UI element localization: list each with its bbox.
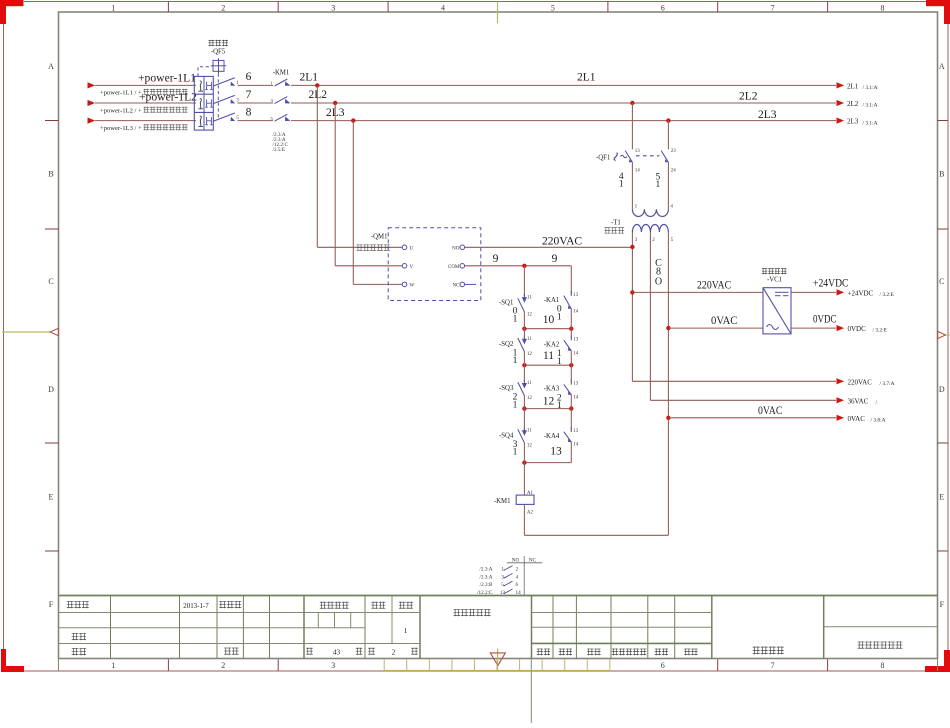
svg-text:B: B — [48, 170, 53, 179]
svg-text:1: 1 — [619, 180, 624, 190]
junction node rung3 left — [522, 406, 526, 410]
svg-text:3: 3 — [635, 238, 638, 243]
svg-text:14: 14 — [573, 443, 579, 448]
svg-text:2L1: 2L1 — [300, 71, 319, 83]
limit switch SQ3 — [518, 380, 533, 402]
transformer T1 secondary winding — [632, 225, 673, 244]
svg-text:4: 4 — [516, 574, 519, 580]
junction node rung4 left — [522, 460, 526, 464]
QF5 pole 3 contact — [213, 113, 239, 121]
svg-text:A2: A2 — [527, 511, 534, 516]
KM1 contact mirror table — [477, 556, 542, 596]
QF5 pole 3 thermal element — [198, 116, 203, 126]
svg-text:E: E — [49, 493, 54, 502]
svg-text:1: 1 — [271, 81, 274, 86]
wire T1 pin5 down — [667, 232, 669, 535]
svg-text:6: 6 — [516, 582, 519, 588]
svg-text:A: A — [48, 62, 54, 71]
zone tick marks left and right — [45, 121, 948, 552]
limit switch SQ2 — [518, 335, 533, 357]
svg-text:/2.3:B: /2.3:B — [480, 582, 493, 588]
wire KM1 A2 return — [524, 504, 668, 535]
QM1 input terminal V — [402, 264, 413, 271]
rung wire net 13 — [524, 462, 571, 464]
wire phase L3 — [95, 120, 836, 122]
centering mark right — [938, 331, 950, 338]
svg-text:/2.3:A: /2.3:A — [479, 574, 492, 580]
svg-text:14: 14 — [573, 395, 579, 400]
svg-text:2013-1-7: 2013-1-7 — [183, 602, 209, 610]
phase monitor QM1 label — [357, 234, 390, 251]
dc power supply VC1 — [763, 288, 791, 334]
limit switch SQ1 — [518, 294, 533, 318]
svg-text:/2.5:E: /2.5:E — [273, 147, 286, 153]
bottom band zone dividers — [59, 659, 938, 672]
svg-text:B: B — [939, 170, 944, 179]
destination arrow 2L3 — [837, 118, 878, 127]
svg-text:D: D — [48, 385, 54, 394]
label +power-1L2 sub — [100, 107, 188, 115]
svg-text:6: 6 — [246, 71, 252, 83]
wire 2L3 drop to QM1 W — [353, 121, 402, 285]
svg-text:2L1: 2L1 — [577, 71, 596, 83]
wire QF1 24 to T1 pin4 — [667, 162, 669, 209]
circuit breaker QF5 operator — [198, 58, 226, 118]
wire phase L2 — [95, 102, 836, 104]
QF5 pole 2 contact — [213, 95, 239, 103]
svg-text:5: 5 — [271, 116, 274, 121]
QM1 input terminal W — [402, 282, 414, 289]
svg-text:W: W — [410, 284, 415, 289]
source arrow L1 — [88, 82, 96, 88]
rung wire net 11 — [524, 364, 571, 366]
svg-text:/12.2:C: /12.2:C — [477, 590, 493, 596]
svg-text:-SQ4: -SQ4 — [499, 433, 514, 440]
svg-text:13: 13 — [573, 382, 579, 387]
junction node 2L2 tap — [333, 101, 337, 105]
wire 2L1 drop to QM1 U — [317, 85, 402, 247]
wire T1 pin3 down — [632, 232, 836, 381]
svg-text:-KM1: -KM1 — [494, 498, 511, 505]
junction node 2L1 tap — [315, 83, 319, 87]
QF5 pole 2 thermal element — [198, 98, 203, 108]
KM1 main contact pole 1 — [271, 79, 291, 86]
junction node 220VAC VC1 — [630, 290, 634, 294]
svg-text:2L2: 2L2 — [847, 100, 859, 108]
svg-text:-KA2: -KA2 — [544, 341, 560, 348]
QF5 pole 1 magnetic element — [205, 82, 213, 90]
QF1 contact 23-24 — [661, 149, 676, 173]
svg-text:3: 3 — [271, 98, 274, 103]
svg-text:2L2: 2L2 — [739, 90, 758, 102]
phase monitor QM1 box — [388, 228, 481, 301]
title block labels left — [67, 601, 242, 655]
svg-text:0VAC: 0VAC — [848, 415, 866, 423]
svg-text:12: 12 — [527, 312, 533, 317]
wire 220VAC to VC1 — [632, 291, 763, 293]
svg-text:1: 1 — [404, 627, 408, 635]
svg-text:2L2: 2L2 — [309, 89, 328, 101]
revision table headers — [537, 649, 698, 656]
source arrow L2 — [88, 100, 96, 106]
svg-text:1: 1 — [513, 448, 518, 458]
svg-text:+power-1L2 / +: +power-1L2 / + — [100, 107, 142, 114]
svg-text:24: 24 — [671, 168, 677, 173]
junction node QF1 feed L2 — [630, 101, 634, 105]
svg-text:NO: NO — [452, 247, 460, 252]
svg-text:/ 3.2:E: / 3.2:E — [873, 328, 888, 334]
svg-text:2L1: 2L1 — [847, 82, 859, 90]
svg-text:0VAC: 0VAC — [758, 405, 783, 417]
svg-text:+power-1L3 / +: +power-1L3 / + — [100, 125, 142, 132]
destination arrow 220VAC — [837, 378, 895, 387]
svg-text:14: 14 — [516, 590, 522, 596]
svg-text:5: 5 — [671, 238, 674, 243]
svg-text:/2.3:A: /2.3:A — [479, 567, 492, 573]
svg-text:23: 23 — [671, 149, 677, 154]
wire QF1 14 to T1 pin1 — [631, 162, 633, 209]
svg-text:220VAC: 220VAC — [697, 279, 731, 291]
junction node 0VAC branch — [666, 416, 670, 420]
svg-text:13: 13 — [573, 293, 579, 298]
svg-text:V: V — [410, 265, 414, 270]
zone row letters right — [939, 62, 945, 609]
bottom graduation scale — [384, 659, 610, 671]
svg-text:1: 1 — [557, 401, 562, 411]
SQ rail segments — [523, 312, 525, 496]
destination arrow 2L2 — [837, 100, 878, 109]
svg-text:/: / — [876, 400, 878, 406]
svg-text:11: 11 — [527, 337, 532, 342]
svg-text:E: E — [939, 493, 944, 502]
svg-text:12: 12 — [527, 352, 533, 357]
svg-text:1: 1 — [513, 314, 518, 324]
QM1 output terminal NC — [452, 282, 464, 289]
QF5 pole 1 contact — [213, 78, 239, 86]
KM1 contact cross references — [273, 132, 289, 153]
QM1 output terminal COM — [448, 264, 465, 271]
svg-text:8: 8 — [881, 661, 885, 670]
svg-text:U: U — [410, 247, 414, 252]
svg-text:-KA4: -KA4 — [544, 433, 560, 440]
zone column numbers top — [111, 4, 884, 13]
svg-text:-SQ1: -SQ1 — [499, 299, 513, 306]
svg-text:-KA3: -KA3 — [544, 386, 560, 393]
zone tick marks top — [168, 2, 827, 13]
svg-text:0VAC: 0VAC — [711, 315, 738, 327]
svg-text:1: 1 — [513, 356, 518, 366]
svg-text:220VAC: 220VAC — [542, 236, 582, 248]
svg-text:9: 9 — [552, 253, 558, 265]
breaker QF1 trip symbols — [614, 153, 627, 161]
svg-text:-SQ2: -SQ2 — [499, 341, 514, 348]
QM1 input terminal U — [402, 245, 413, 252]
junction node rung2 left — [522, 363, 526, 367]
svg-text:220VAC: 220VAC — [848, 378, 873, 386]
wire L2 to QF1 13 — [631, 103, 633, 149]
centering mark bottom with triangle — [490, 649, 505, 671]
svg-text:8: 8 — [246, 107, 252, 119]
svg-text:14: 14 — [573, 351, 579, 356]
svg-text:1: 1 — [635, 204, 638, 209]
label +power-1L3 sub — [100, 124, 188, 132]
svg-text:36VAC: 36VAC — [848, 397, 869, 405]
wire VC1 +24VDC out — [791, 291, 836, 293]
svg-text:14: 14 — [635, 168, 641, 173]
svg-text:NC: NC — [452, 284, 460, 289]
QM1 NC stub — [465, 283, 476, 285]
svg-text:A: A — [939, 62, 945, 71]
QF1 linkage dashes — [636, 155, 660, 157]
wire L3 to QF1 23 — [667, 121, 669, 150]
svg-text:3: 3 — [331, 4, 335, 13]
destination arrow +24VDC — [837, 289, 895, 298]
svg-text:14: 14 — [573, 309, 579, 314]
svg-text:9: 9 — [493, 253, 499, 265]
wire 0VAC to VC1 — [668, 327, 763, 329]
svg-text:A1: A1 — [527, 491, 534, 496]
svg-text:/ 3.1:A: / 3.1:A — [863, 103, 878, 109]
vertical label C8O — [655, 258, 662, 288]
QM1 output terminal NO — [452, 245, 464, 252]
svg-text:11: 11 — [543, 350, 554, 362]
svg-text:O: O — [655, 277, 662, 288]
svg-text:-KM1: -KM1 — [273, 69, 290, 76]
wire T1 pin2 down — [650, 232, 836, 400]
junction node rung2 right — [569, 363, 573, 367]
destination arrow 36VAC — [837, 397, 878, 406]
svg-text:-KA1: -KA1 — [544, 297, 559, 304]
svg-text:12: 12 — [527, 443, 533, 448]
circuit breaker QF5 body — [194, 76, 213, 130]
destination arrow 0VDC — [837, 325, 888, 334]
destination arrow 0VAC — [837, 415, 886, 424]
relay contact KA1 — [564, 291, 579, 314]
KM1 main contact pole 3 — [271, 114, 291, 121]
svg-text:8: 8 — [881, 4, 885, 13]
svg-text:-QF5: -QF5 — [211, 49, 226, 56]
project name cell — [753, 647, 784, 655]
svg-text:/ 3.1:A: / 3.1:A — [863, 85, 878, 91]
QF5 pole 2 magnetic element — [205, 99, 213, 107]
title block grid — [59, 596, 938, 659]
svg-text:7: 7 — [246, 89, 252, 101]
svg-text:13: 13 — [635, 149, 641, 154]
svg-text:/ 3.1:A: / 3.1:A — [863, 120, 878, 126]
svg-text:F: F — [49, 600, 54, 609]
centering mark left — [2, 328, 59, 335]
svg-text:10: 10 — [543, 314, 555, 326]
QF5 pole 3 magnetic element — [205, 117, 213, 125]
svg-text:D: D — [939, 385, 945, 394]
svg-text:1: 1 — [557, 357, 562, 367]
wire VC1 0VDC out — [791, 327, 836, 329]
svg-text:/ 3.7:A: / 3.7:A — [880, 381, 895, 387]
transformer T1 label — [605, 220, 625, 234]
dc power supply VC1 label — [762, 268, 787, 283]
wire 220VAC from QM1 NO to T1 — [465, 246, 633, 248]
svg-text:6: 6 — [661, 661, 665, 670]
centering mark top — [497, 2, 499, 24]
zone column numbers bottom — [111, 661, 884, 670]
source arrow L3 — [88, 118, 96, 124]
svg-text:11: 11 — [527, 429, 532, 434]
wire phase L1 — [95, 84, 836, 86]
wire drop to SQ1 — [523, 266, 525, 296]
svg-text:COM: COM — [448, 265, 460, 270]
svg-text:-VC1: -VC1 — [767, 276, 782, 283]
svg-text:F: F — [940, 600, 945, 609]
junction node 2L3 tap — [351, 118, 355, 122]
svg-text:0VDC: 0VDC — [813, 313, 837, 325]
svg-text:/ 3.2:E: / 3.2:E — [880, 292, 895, 298]
svg-text:+power-1L2: +power-1L2 — [139, 92, 197, 104]
svg-text:4: 4 — [670, 204, 673, 209]
svg-text:4: 4 — [441, 4, 445, 13]
title block stage weight scale cells — [306, 602, 418, 657]
transformer T1 primary winding — [632, 204, 673, 216]
svg-text:7: 7 — [771, 4, 775, 13]
svg-text:12: 12 — [543, 395, 555, 407]
svg-text:1: 1 — [111, 661, 115, 670]
destination arrow 2L1 — [837, 82, 878, 91]
svg-text:13: 13 — [573, 429, 579, 434]
svg-text:-QF1: -QF1 — [596, 154, 610, 161]
svg-text:+power-1L1: +power-1L1 — [138, 73, 196, 85]
svg-text:1: 1 — [513, 400, 518, 410]
QF5 pole 1 thermal element — [198, 81, 203, 91]
svg-text:+24VDC: +24VDC — [848, 289, 874, 297]
svg-text:2L3: 2L3 — [847, 118, 859, 126]
svg-text:2: 2 — [221, 4, 225, 13]
junction node rung3 right — [569, 406, 573, 410]
junction node rung1 left — [522, 327, 526, 331]
junction node rung1 right — [569, 327, 573, 331]
relay contact KA3 — [564, 380, 579, 401]
junction node 0VAC VC1 — [666, 326, 670, 330]
svg-text:-SQ3: -SQ3 — [499, 385, 514, 392]
svg-text:C: C — [939, 277, 944, 286]
svg-text:1: 1 — [557, 312, 562, 322]
svg-text:+power-1L1 / +: +power-1L1 / + — [100, 89, 142, 96]
wire drop to KA1 — [570, 266, 572, 293]
QF1 contact 13-14 — [625, 149, 640, 173]
svg-text:12: 12 — [527, 396, 533, 401]
junction node 220VAC T1 — [630, 245, 634, 249]
svg-text:2L3: 2L3 — [758, 109, 777, 121]
relay contact KA2 — [564, 336, 579, 357]
svg-text:3: 3 — [331, 661, 335, 670]
svg-text:11: 11 — [527, 295, 532, 300]
svg-text:1: 1 — [111, 4, 115, 13]
svg-text:13: 13 — [550, 446, 562, 458]
svg-text:43: 43 — [333, 648, 341, 656]
svg-text:2: 2 — [392, 648, 396, 656]
zone row letters left — [48, 62, 54, 609]
svg-text:2: 2 — [652, 238, 655, 243]
svg-text:7: 7 — [771, 661, 775, 670]
wire 2L2 drop to QM1 V — [335, 103, 402, 266]
svg-text:1: 1 — [656, 180, 661, 190]
limit switch SQ4 — [518, 427, 533, 449]
svg-text:C: C — [48, 277, 53, 286]
svg-text:+24VDC: +24VDC — [813, 277, 849, 289]
rung wire net 12 — [524, 408, 571, 410]
svg-text:-T1: -T1 — [611, 220, 621, 227]
svg-text:2: 2 — [221, 661, 225, 670]
label +power-1L1 sub — [100, 89, 188, 97]
drawing type cell — [454, 609, 491, 616]
contactor coil KM1 — [494, 491, 534, 515]
fold mark line bottom — [530, 660, 532, 724]
KM1 main contact pole 2 — [271, 97, 291, 104]
relay contact KA4 — [564, 427, 579, 448]
svg-text:11: 11 — [527, 381, 532, 386]
svg-text:0VDC: 0VDC — [848, 325, 867, 333]
svg-text:6: 6 — [661, 4, 665, 13]
svg-text:5: 5 — [551, 4, 555, 13]
wire net 9 from QM1 COM — [465, 265, 572, 267]
rung wire net 10 — [524, 328, 571, 330]
KA rail segments — [570, 309, 572, 463]
svg-text:-QM1: -QM1 — [371, 234, 388, 241]
junction node QF1 feed L3 — [666, 118, 670, 122]
circuit breaker QF5 label — [209, 40, 229, 56]
svg-text:13: 13 — [573, 337, 579, 342]
wire 0VAC branch arrow — [668, 417, 836, 419]
junction node net9 — [522, 264, 526, 268]
svg-text:2: 2 — [516, 567, 519, 573]
drawing title cell — [858, 642, 903, 649]
svg-text:/ 3.8:A: / 3.8:A — [871, 417, 886, 423]
